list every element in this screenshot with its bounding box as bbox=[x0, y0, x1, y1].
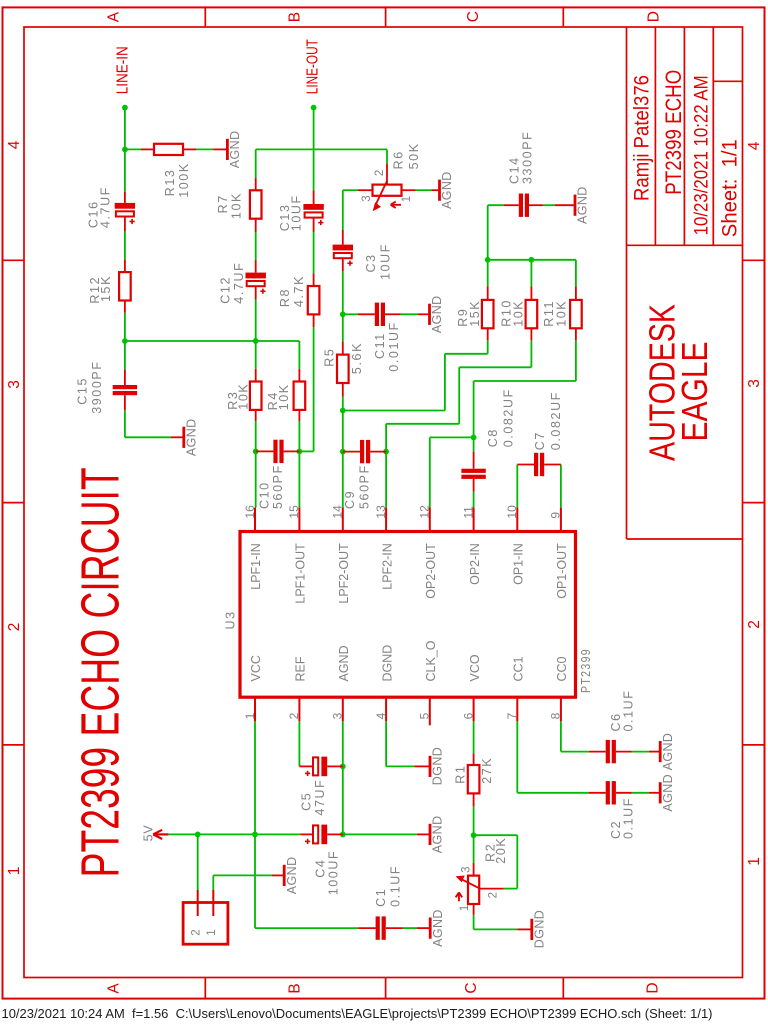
wire C2 to AGND bbox=[632, 792, 649, 794]
capacitor C6 bbox=[589, 689, 636, 763]
svg-text:16: 16 bbox=[243, 505, 257, 519]
wire LINE-IN to R13 bbox=[125, 148, 141, 150]
wire R8 down to C10 node bbox=[299, 327, 313, 451]
wire C9 right to pin13 bbox=[385, 452, 387, 508]
wire C1 branch bbox=[255, 834, 358, 928]
junction rail / C4 / pin3 bbox=[340, 832, 346, 838]
svg-text:A: A bbox=[106, 983, 123, 994]
svg-text:C1: C1 bbox=[374, 888, 388, 907]
wire pin10 to C7 bbox=[516, 465, 518, 508]
junction R11 node / C8 / pin12 branch bbox=[471, 435, 477, 441]
svg-text:20K: 20K bbox=[494, 837, 508, 864]
svg-text:2: 2 bbox=[746, 620, 763, 629]
svg-text:U3: U3 bbox=[223, 610, 237, 629]
capacitor C2 bbox=[589, 781, 636, 839]
ground AGND bbox=[418, 295, 444, 333]
svg-text:5: 5 bbox=[418, 712, 432, 719]
svg-text:AGND: AGND bbox=[431, 815, 445, 853]
svg-text:PT2399: PT2399 bbox=[579, 648, 593, 693]
ground AGND bbox=[417, 909, 445, 947]
wire C11 to AGND bbox=[401, 313, 418, 315]
svg-text:10K: 10K bbox=[230, 192, 244, 219]
svg-text:R1: R1 bbox=[454, 765, 468, 784]
wire R5 node down to C9 bbox=[342, 411, 344, 452]
capacitor C10 bbox=[256, 440, 300, 509]
wire pin2 REF to C5 bbox=[298, 721, 300, 766]
title block outline bbox=[627, 27, 743, 539]
svg-text:100UF: 100UF bbox=[327, 850, 341, 896]
svg-text:Sheet: 1/1: Sheet: 1/1 bbox=[719, 139, 742, 237]
wire connector pin1 to AGND bbox=[213, 875, 272, 890]
capacitor C4 (polarized) bbox=[301, 825, 343, 896]
svg-text:1: 1 bbox=[243, 712, 257, 719]
svg-text:2: 2 bbox=[6, 623, 23, 632]
junction ladder bus / R10 bbox=[529, 257, 535, 263]
resistor R5 bbox=[322, 342, 364, 397]
schematic title text bbox=[71, 467, 131, 877]
IC U3 PT2399 bbox=[223, 505, 593, 725]
junction mid bus / C12 / R3 bbox=[253, 338, 259, 344]
svg-text:4.7UF: 4.7UF bbox=[232, 262, 246, 304]
svg-text:CC0: CC0 bbox=[555, 656, 569, 681]
wire C6 to AGND bbox=[632, 751, 649, 753]
ground AGND bbox=[555, 186, 590, 224]
svg-text:3: 3 bbox=[361, 195, 373, 201]
wire C8 to pin11 bbox=[473, 492, 475, 508]
svg-text:AGND: AGND bbox=[440, 171, 454, 209]
frame column letters bottom bbox=[106, 982, 662, 993]
wire R7 to C12 bbox=[255, 232, 257, 260]
svg-text:LPF1-OUT: LPF1-OUT bbox=[294, 543, 308, 604]
resistor R13 bbox=[141, 144, 196, 198]
potentiometer R6 (trimmer 50K) bbox=[358, 142, 421, 211]
wire node to R2 terminal 3 bbox=[473, 835, 475, 863]
svg-text:3: 3 bbox=[746, 379, 763, 388]
junction LINE-IN / R13 / C16 bbox=[122, 147, 128, 153]
capacitor C12 (polarized) bbox=[219, 260, 266, 304]
junction ladder bus / R9 / C14 bbox=[485, 257, 491, 263]
wire node to C11 bbox=[343, 313, 358, 315]
svg-text:12: 12 bbox=[418, 505, 432, 519]
svg-text:3300PF: 3300PF bbox=[520, 131, 534, 184]
svg-text:CLK_O: CLK_O bbox=[424, 640, 438, 681]
capacitor C11 bbox=[358, 303, 401, 372]
wire C7 to pin9 bbox=[560, 465, 562, 508]
wire node to R5 bbox=[342, 314, 344, 341]
svg-text:560PF: 560PF bbox=[357, 464, 371, 509]
svg-text:AGND: AGND bbox=[228, 130, 242, 168]
frame row ticks right bbox=[743, 260, 765, 745]
svg-text:AGND: AGND bbox=[576, 186, 590, 224]
ground AGND bbox=[171, 418, 198, 456]
svg-text:8: 8 bbox=[549, 712, 563, 719]
svg-text:2: 2 bbox=[191, 929, 203, 935]
svg-text:1: 1 bbox=[6, 867, 23, 876]
svg-text:R7: R7 bbox=[216, 194, 230, 213]
net label LINE-OUT bbox=[304, 39, 321, 94]
ground AGND bbox=[649, 733, 675, 771]
wire rail to AGND bbox=[343, 833, 417, 835]
wire node to C8 bbox=[473, 437, 475, 451]
frame column letters top bbox=[106, 11, 663, 22]
resistor R7 bbox=[216, 178, 262, 232]
svg-text:10K: 10K bbox=[511, 300, 525, 327]
resistor R1 bbox=[454, 753, 495, 806]
title block EAGLE logo text bbox=[674, 342, 715, 442]
wire pin7 to C2 bbox=[517, 721, 589, 793]
svg-text:3: 3 bbox=[461, 866, 473, 872]
svg-text:4: 4 bbox=[746, 141, 763, 150]
capacitor C1 bbox=[358, 865, 402, 940]
svg-text:R8: R8 bbox=[278, 288, 292, 307]
svg-text:10K: 10K bbox=[236, 383, 250, 410]
wire connector pin2 drop bbox=[197, 834, 199, 890]
wire C14 left leg bbox=[488, 205, 504, 260]
wire R5 bottom node bbox=[342, 397, 344, 411]
svg-text:10: 10 bbox=[505, 505, 519, 519]
svg-text:AGND: AGND bbox=[661, 733, 675, 771]
svg-text:C11: C11 bbox=[373, 332, 387, 359]
svg-text:Ramji Patel376: Ramji Patel376 bbox=[631, 75, 654, 201]
wire 5V rail bbox=[168, 833, 300, 835]
wire R4 to C10/pin15 bbox=[298, 421, 300, 508]
resistor R11 bbox=[542, 286, 581, 340]
wire C1 to AGND bbox=[403, 927, 417, 929]
svg-text:AGND: AGND bbox=[430, 295, 444, 333]
svg-text:C8: C8 bbox=[486, 428, 500, 447]
svg-text:0.082UF: 0.082UF bbox=[502, 388, 516, 447]
frame row numbers left bbox=[6, 140, 23, 875]
wire R9 staircase bbox=[343, 340, 488, 410]
svg-text:5V: 5V bbox=[141, 825, 155, 842]
ground AGND bbox=[431, 171, 454, 209]
svg-text:0.1UF: 0.1UF bbox=[389, 865, 403, 907]
svg-text:C12: C12 bbox=[219, 276, 233, 304]
junction C5 / pin3 bbox=[340, 764, 346, 770]
wire R6 terminal 1 to AGND bbox=[416, 189, 432, 191]
svg-text:3: 3 bbox=[331, 712, 345, 719]
wire net LINE-OUT (label stem to C13) bbox=[313, 108, 315, 191]
wire R11 staircase bbox=[474, 340, 576, 437]
svg-text:R5: R5 bbox=[322, 348, 336, 367]
svg-text:VCO: VCO bbox=[468, 654, 482, 681]
svg-text:7: 7 bbox=[505, 712, 519, 719]
svg-text:27K: 27K bbox=[480, 757, 494, 784]
svg-text:0.01UF: 0.01UF bbox=[387, 321, 401, 372]
svg-text:9: 9 bbox=[549, 512, 563, 519]
wire R2 wiper loop bbox=[474, 835, 518, 888]
svg-text:EAGLE: EAGLE bbox=[674, 342, 715, 442]
frame column ticks bottom bbox=[205, 978, 563, 999]
wire pin4 DGND bbox=[386, 721, 414, 766]
junction R1 / R2 / wiper loop bbox=[471, 832, 477, 838]
net label LINE-IN bbox=[114, 46, 131, 94]
svg-text:2: 2 bbox=[287, 712, 301, 719]
wire C14 right to AGND bbox=[543, 204, 555, 206]
wire C9 node to pin14 bbox=[342, 452, 344, 508]
wire C3 to C11/R5 node bbox=[342, 271, 344, 314]
junction LINE-OUT label dot bbox=[311, 105, 317, 111]
title block date bbox=[692, 75, 713, 235]
junction R5 node / C9 / pin14 bbox=[340, 449, 346, 455]
svg-text:100K: 100K bbox=[177, 162, 191, 198]
junction R4 / C10 / C13 branch bbox=[297, 449, 303, 455]
svg-text:OP1-IN: OP1-IN bbox=[512, 543, 526, 585]
title block AUTODESK logo text bbox=[642, 304, 683, 461]
wire pin1 VCC down to 5V rail bbox=[254, 721, 256, 834]
svg-text:C9: C9 bbox=[343, 490, 357, 509]
svg-text:14: 14 bbox=[331, 505, 345, 519]
svg-text:DGND: DGND bbox=[380, 645, 394, 682]
svg-text:10K: 10K bbox=[277, 383, 291, 410]
capacitor C13 (polarized) bbox=[278, 190, 324, 232]
capacitor C7 bbox=[517, 391, 563, 476]
svg-text:5.6K: 5.6K bbox=[350, 342, 364, 374]
ground AGND bbox=[272, 856, 299, 894]
svg-text:0.082UF: 0.082UF bbox=[549, 391, 563, 450]
svg-text:AGND: AGND bbox=[337, 645, 351, 681]
svg-text:C10: C10 bbox=[257, 481, 271, 509]
svg-text:CC1: CC1 bbox=[512, 656, 526, 681]
wire R3 to C10/pin16 bbox=[255, 421, 257, 508]
ground AGND bbox=[649, 774, 675, 812]
connector X1 (2-pin header) bbox=[183, 890, 228, 944]
resistor R9 bbox=[456, 286, 494, 340]
wire ladder top bus bbox=[488, 260, 576, 287]
wire R10 staircase bbox=[386, 340, 531, 451]
svg-text:0.1UF: 0.1UF bbox=[622, 689, 636, 731]
svg-text:47UF: 47UF bbox=[313, 779, 327, 816]
svg-text:LPF1-IN: LPF1-IN bbox=[249, 543, 263, 590]
svg-text:LPF2-OUT: LPF2-OUT bbox=[337, 543, 351, 604]
svg-text:R6: R6 bbox=[392, 150, 406, 169]
svg-text:C2: C2 bbox=[609, 820, 623, 839]
wire pin6 to R1 bbox=[473, 721, 475, 753]
svg-text:15K: 15K bbox=[468, 300, 482, 327]
resistor R4 bbox=[266, 369, 305, 421]
capacitor C14 bbox=[504, 131, 543, 217]
junction C9 right / staircase / pin13 bbox=[383, 449, 389, 455]
svg-text:OP2-OUT: OP2-OUT bbox=[424, 543, 438, 599]
svg-text:C15: C15 bbox=[75, 377, 89, 405]
svg-text:A: A bbox=[106, 11, 123, 22]
svg-text:1: 1 bbox=[401, 196, 413, 202]
capacitor C16 (polarized) bbox=[86, 186, 135, 231]
wire mid bus corner to R4 bbox=[298, 341, 300, 369]
wire C12 to mid bus bbox=[255, 300, 257, 341]
svg-text:C: C bbox=[465, 11, 482, 22]
wire mid bus bbox=[125, 340, 300, 342]
resistor R12 bbox=[88, 260, 131, 313]
ground AGND bbox=[213, 130, 242, 168]
svg-text:B: B bbox=[287, 983, 304, 993]
junction LINE-IN label dot bbox=[122, 105, 128, 111]
wire pin3 AGND column bbox=[342, 721, 344, 834]
svg-text:4.7K: 4.7K bbox=[292, 275, 306, 307]
wire R6 terminal 3 to C3 bbox=[343, 190, 358, 230]
title block sheet bbox=[719, 139, 742, 237]
svg-text:4.7UF: 4.7UF bbox=[98, 186, 112, 228]
svg-text:LPF2-IN: LPF2-IN bbox=[380, 543, 394, 590]
svg-text:3900PF: 3900PF bbox=[90, 360, 104, 413]
ground DGND bbox=[414, 747, 444, 785]
svg-text:C4: C4 bbox=[314, 859, 328, 878]
junction R5 / R9 staircase bbox=[340, 408, 346, 414]
svg-text:B: B bbox=[287, 12, 304, 22]
supply 5V bbox=[141, 825, 168, 842]
junction C3 / C11 / R5 bbox=[340, 311, 346, 317]
wire C15 chain bbox=[125, 341, 171, 437]
svg-text:PT2399 ECHO: PT2399 ECHO bbox=[661, 70, 686, 195]
ground DGND bbox=[517, 910, 546, 948]
svg-text:LINE-IN: LINE-IN bbox=[114, 46, 131, 94]
svg-text:10UF: 10UF bbox=[378, 243, 392, 280]
resistor R10 bbox=[499, 286, 537, 340]
wire R13 to AGND bbox=[196, 148, 213, 150]
svg-text:OP2-IN: OP2-IN bbox=[468, 543, 482, 585]
footer status line bbox=[2, 1006, 713, 1021]
capacitor C5 (polarized) bbox=[299, 757, 342, 816]
capacitor C8 bbox=[461, 388, 515, 492]
junction rail / pin1 / C1 branch bbox=[252, 832, 258, 838]
svg-text:10/23/2021 10:22 AM: 10/23/2021 10:22 AM bbox=[692, 75, 713, 235]
svg-text:DGND: DGND bbox=[431, 747, 445, 785]
svg-text:6: 6 bbox=[461, 712, 475, 719]
svg-text:1: 1 bbox=[459, 905, 471, 911]
svg-text:560PF: 560PF bbox=[271, 464, 285, 509]
wire net LINE-IN (label stem) bbox=[124, 108, 126, 150]
svg-text:LINE-OUT: LINE-OUT bbox=[304, 39, 321, 94]
wire pin8 to C6 bbox=[561, 721, 589, 751]
frame column ticks top bbox=[205, 6, 563, 27]
wire R1 to R2 node bbox=[473, 806, 475, 835]
svg-text:10K: 10K bbox=[555, 300, 569, 327]
capacitor C3 (polarized) bbox=[333, 230, 393, 280]
svg-text:C3: C3 bbox=[364, 253, 378, 272]
svg-text:1: 1 bbox=[746, 857, 763, 866]
svg-text:C5: C5 bbox=[300, 792, 314, 811]
capacitor C9 bbox=[343, 440, 386, 509]
svg-text:2: 2 bbox=[487, 892, 499, 898]
svg-text:15K: 15K bbox=[99, 275, 113, 302]
svg-text:11: 11 bbox=[461, 506, 475, 519]
capacitor C15 bbox=[75, 360, 137, 413]
svg-text:C: C bbox=[463, 982, 480, 993]
wire R7 net (top bus to R6 wiper) bbox=[256, 149, 387, 177]
svg-text:1: 1 bbox=[206, 929, 218, 935]
svg-text:C7: C7 bbox=[533, 431, 547, 450]
wire C16 chain (LINE-IN column) bbox=[124, 149, 126, 341]
junction mid bus / C15 bbox=[122, 338, 128, 344]
svg-text:50K: 50K bbox=[407, 142, 421, 169]
svg-text:AGND: AGND bbox=[285, 856, 299, 894]
svg-text:15: 15 bbox=[287, 505, 301, 519]
junction rail / connector bbox=[195, 832, 201, 838]
svg-text:D: D bbox=[645, 982, 662, 993]
svg-text:PT2399 ECHO CIRCUIT: PT2399 ECHO CIRCUIT bbox=[71, 467, 131, 877]
svg-text:REF: REF bbox=[294, 656, 308, 681]
wire node to pin12 bbox=[430, 437, 474, 507]
svg-text:D: D bbox=[646, 11, 663, 22]
frame row ticks left bbox=[3, 260, 25, 745]
svg-text:0.1UF: 0.1UF bbox=[622, 797, 636, 839]
resistor R8 bbox=[278, 273, 319, 327]
svg-text:AGND: AGND bbox=[431, 909, 445, 947]
svg-text:4: 4 bbox=[374, 712, 388, 719]
svg-text:3: 3 bbox=[6, 380, 23, 389]
wire R2 terminal 1 to DGND bbox=[474, 915, 518, 930]
title block project name bbox=[661, 70, 686, 195]
frame row numbers right bbox=[746, 141, 763, 866]
resistor R3 bbox=[226, 369, 262, 421]
svg-text:VCC: VCC bbox=[249, 655, 263, 681]
svg-text:2: 2 bbox=[374, 170, 386, 176]
svg-text:10UF: 10UF bbox=[290, 194, 304, 231]
svg-text:DGND: DGND bbox=[532, 910, 546, 948]
svg-text:OP1-OUT: OP1-OUT bbox=[555, 543, 569, 599]
svg-text:4: 4 bbox=[6, 140, 23, 149]
wire C13 to R8 bbox=[313, 232, 315, 273]
svg-text:AGND: AGND bbox=[661, 774, 675, 812]
svg-text:13: 13 bbox=[374, 505, 388, 519]
svg-text:R13: R13 bbox=[163, 169, 177, 197]
svg-text:AGND: AGND bbox=[184, 418, 198, 456]
ground AGND bbox=[417, 815, 445, 853]
potentiometer R2 (trimmer 20K) bbox=[456, 837, 508, 915]
svg-text:C6: C6 bbox=[609, 712, 623, 731]
junction R3 / C10 / pin16 bbox=[253, 449, 259, 455]
svg-text:10/23/2021 10:24 AM f=1.56 C: 10/23/2021 10:24 AM f=1.56 C:\Users\Leno… bbox=[2, 1006, 713, 1021]
wire mid bus to R3 bbox=[255, 341, 257, 369]
title block author bbox=[631, 75, 654, 201]
